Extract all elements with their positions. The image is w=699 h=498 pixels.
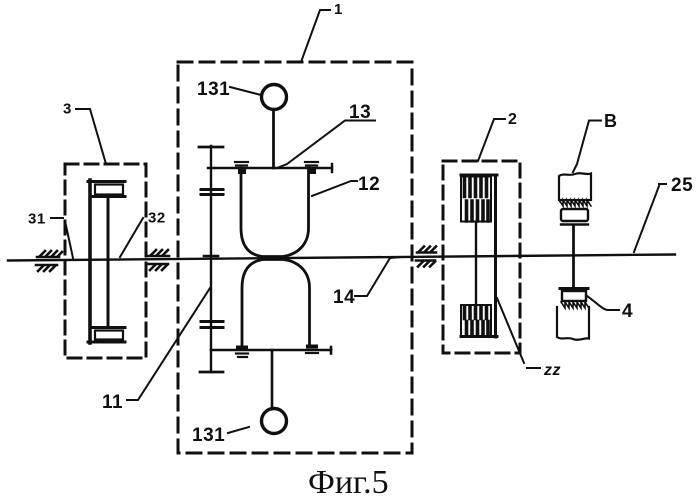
bearing hatch right of box 3: [148, 250, 169, 270]
dashed box 3: [65, 164, 146, 358]
bottom plate right cap: [306, 345, 318, 354]
svg-text:4: 4: [622, 301, 633, 322]
dashed box 2: [443, 161, 520, 353]
label 32: [120, 210, 166, 258]
top plate left cap: [235, 162, 248, 174]
wire circle to plate: [272, 110, 275, 168]
bearing hatch left of box 2: [416, 247, 436, 267]
worm block B top: [559, 173, 591, 224]
label 31: [28, 211, 73, 259]
label 4: [587, 296, 633, 322]
dashed box 1: [178, 62, 412, 453]
svg-text:12: 12: [358, 174, 380, 195]
svg-text:1: 1: [334, 1, 343, 18]
coupling 3 inner yoke: [88, 180, 125, 343]
worm block B bottom coupling 4: [557, 289, 589, 340]
label 13: [277, 102, 375, 168]
svg-text:zz: zz: [543, 362, 561, 379]
svg-text:2: 2: [508, 111, 517, 128]
label 12: [312, 174, 380, 196]
idler circle 131 bottom: [262, 409, 287, 434]
bottom plate: [211, 349, 331, 352]
clutch 22 frame: [461, 175, 497, 337]
label 2: [478, 111, 517, 161]
label B: [573, 111, 618, 172]
bottom plate left cap: [236, 346, 248, 358]
svg-text:Фиг.5: Фиг.5: [308, 464, 389, 498]
label 131 top: [197, 79, 261, 100]
label zz: [497, 298, 561, 379]
clutch pack top: [461, 177, 491, 222]
svg-text:11: 11: [102, 392, 123, 413]
label 131 bottom: [192, 425, 249, 446]
label 25: [634, 175, 693, 252]
label 11: [102, 288, 210, 413]
idler circle 131 top: [262, 85, 287, 110]
svg-text:32: 32: [148, 210, 166, 227]
top plate 13: [208, 164, 332, 172]
clutch pack bottom: [461, 305, 491, 336]
wire worm shaft vertical: [572, 225, 575, 288]
svg-text:14: 14: [333, 287, 355, 308]
toroid cup 12 top: [241, 168, 309, 257]
svg-text:31: 31: [28, 211, 46, 228]
label 14: [333, 257, 402, 308]
svg-text:131: 131: [192, 425, 225, 446]
svg-text:3: 3: [63, 101, 72, 118]
waist contact patch: [263, 256, 283, 261]
svg-text:131: 131: [197, 79, 230, 100]
svg-text:B: B: [604, 111, 618, 131]
top plate right cap: [305, 162, 318, 174]
wire bottom plate to circle: [271, 350, 274, 408]
shaft 25 main horizontal line: [8, 255, 675, 261]
toroid cup bottom: [242, 260, 310, 347]
label 3: [63, 101, 106, 165]
svg-text:25: 25: [671, 175, 693, 196]
bearing hatch left of box 3: [36, 251, 62, 271]
trunnion shaft 11 vertical: [199, 146, 223, 372]
label 1: [301, 1, 343, 62]
